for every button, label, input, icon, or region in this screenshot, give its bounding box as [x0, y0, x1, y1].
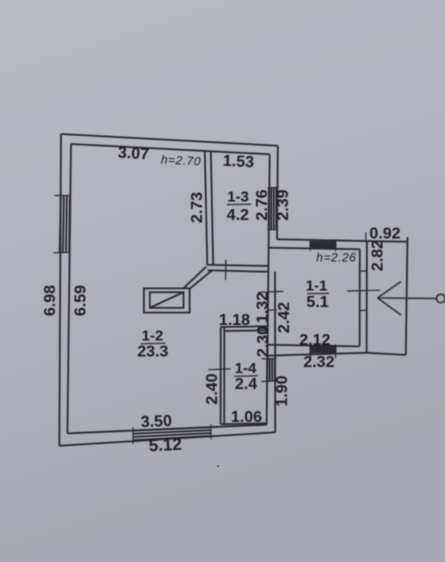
svg-text:h=2.70: h=2.70 [161, 152, 202, 168]
room 1-4 fraction bar [234, 375, 258, 378]
svg-text:1.32: 1.32 [255, 292, 272, 323]
window W3 on room 1-3 right wall [268, 188, 270, 230]
entrance door arrow: lower leg [378, 298, 402, 315]
window W5 end ticks [309, 344, 311, 358]
door jamb tick lower on 1-1 right wall [360, 309, 367, 311]
svg-text:2.32: 2.32 [303, 354, 334, 371]
window W4 end ticks [309, 239, 311, 251]
room 1-3 fraction bar [227, 203, 251, 205]
dimension tick short on corridor wall [267, 309, 277, 311]
entrance door arrow: shaft [378, 297, 437, 300]
porch right wall [406, 237, 408, 355]
wall: diagonal from room 1-3 corner to stove, lower line [190, 271, 212, 289]
wall: room 1-4 left wall line a [220, 327, 222, 424]
svg-text:1.90: 1.90 [274, 375, 291, 406]
wall: house bottom inner [67, 425, 266, 434]
svg-text:5.12: 5.12 [148, 435, 182, 455]
svg-text:4.2: 4.2 [227, 207, 249, 224]
stove inner rectangle [150, 292, 184, 308]
svg-text:1.18: 1.18 [219, 312, 250, 329]
photo speck [217, 465, 219, 467]
svg-text:3.07: 3.07 [117, 145, 149, 164]
svg-text:3.50: 3.50 [140, 413, 172, 431]
svg-text:2.12: 2.12 [299, 332, 330, 349]
svg-text:2.39: 2.39 [275, 189, 292, 220]
wall: room 1-4 left wall line b [223, 327, 225, 424]
wall: room 1-3 bottom, upper line [207, 265, 268, 266]
wall: room 1-3 bottom, lower line [208, 270, 269, 272]
svg-text:2.76: 2.76 [254, 189, 271, 220]
entrance door arrow: circle terminal [437, 294, 445, 303]
window W2 on bottom wall [133, 427, 211, 430]
stove diagonal [150, 292, 184, 308]
wall: room 1-1 bottom inner line [268, 345, 360, 347]
svg-text:h=2.26: h=2.26 [316, 251, 356, 265]
porch bottom wall [367, 353, 406, 355]
svg-text:1-3: 1-3 [227, 189, 249, 206]
door tick on room 1-3 bottom wall [225, 260, 227, 280]
wall: room 1-1 right wall inner line [359, 249, 361, 346]
svg-text:5.1: 5.1 [306, 294, 328, 311]
wall: partition between room 1-2 and 1-3, right line [211, 151, 213, 265]
wall: house top inner [71, 144, 270, 154]
dimension tick for 0.92 at porch top left [365, 232, 367, 241]
room 1-1 fraction bar [307, 292, 329, 294]
wall: main vertical wall right line lower part [274, 272, 276, 433]
svg-text:2.82: 2.82 [370, 240, 387, 271]
wall: house left inner [67, 144, 71, 433]
window W6 on corridor right wall (below 1-1) [266, 359, 268, 382]
svg-text:1.53: 1.53 [222, 153, 254, 172]
wall: house bottom outer [59, 432, 275, 446]
window W2 end ticks [132, 427, 134, 444]
entrance door arrow: upper leg [378, 282, 402, 298]
svg-text:1.06: 1.06 [231, 409, 262, 426]
room 1-2 fraction bar [141, 342, 165, 345]
wall: house top outer [61, 134, 278, 146]
door tick across room 1-4 left wall [209, 368, 231, 371]
svg-text:23.3: 23.3 [137, 344, 168, 361]
svg-text:1-4: 1-4 [235, 360, 257, 377]
wall: room 1-4 bottom line [221, 423, 267, 424]
window W1 on left wall [60, 196, 61, 253]
svg-text:1-1: 1-1 [306, 278, 328, 295]
wall: room 1-1 top inner line [269, 248, 360, 250]
wall: room 1-1 right wall outer line [366, 242, 368, 353]
wall: partition between room 1-2 and 1-3, left line [205, 151, 208, 266]
window W1 end ticks [54, 194, 70, 196]
wall: room 1-1 top outer line (extends to porch corner) [277, 239, 408, 242]
wall: room 1-4 top wall upper line [221, 325, 269, 328]
wall: room 1-4 top wall lower line [224, 329, 268, 332]
svg-text:6.98: 6.98 [42, 285, 59, 316]
wall: house left outer [59, 134, 61, 446]
dimension tick 1.32/2.42 long [258, 290, 283, 293]
stove outer rectangle [144, 288, 190, 312]
window W5 on room 1-1 bottom wall: hatch [310, 346, 335, 353]
window W6 end ticks [262, 357, 277, 359]
window W3 end ticks [268, 187, 279, 189]
wall: main vertical wall left line (1-3 right / 1-1 left / corridor) [267, 154, 270, 424]
wall: room 1-1 bottom outer line [267, 353, 367, 356]
svg-text:2.30: 2.30 [255, 326, 272, 357]
svg-text:2.42: 2.42 [276, 302, 293, 333]
door jamb tick upper on 1-1 right wall [360, 270, 367, 272]
svg-text:2.4: 2.4 [235, 376, 257, 393]
window W4 on room 1-1 top wall: hatch [310, 241, 335, 249]
svg-text:2.73: 2.73 [189, 192, 206, 223]
door dimension long tick across 1-1 right wall [347, 289, 380, 292]
svg-text:2.40: 2.40 [204, 373, 221, 404]
svg-text:6.59: 6.59 [73, 285, 90, 316]
svg-text:1-2: 1-2 [142, 328, 164, 345]
wall: main vertical wall right line upper part [276, 146, 279, 240]
wall: diagonal from room 1-3 corner to stove, upper line [184, 267, 206, 288]
